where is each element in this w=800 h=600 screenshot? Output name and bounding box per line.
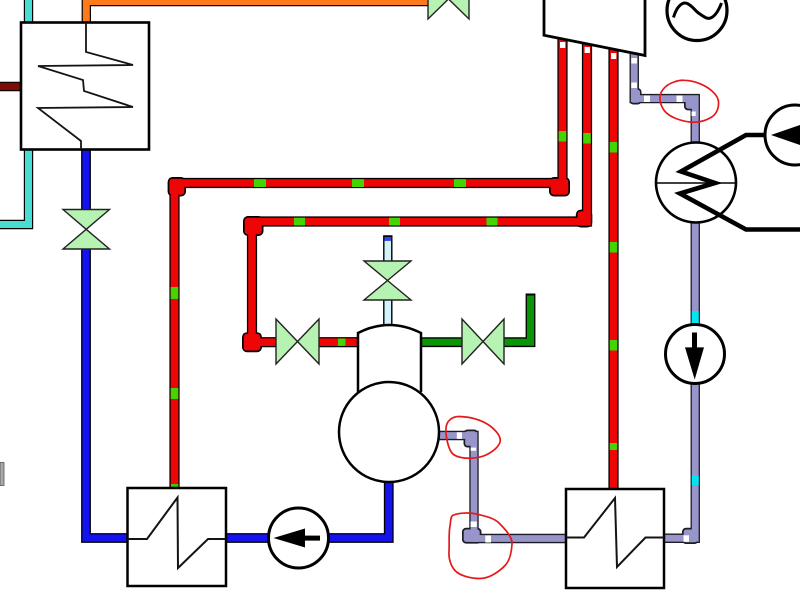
condenser mid line bbox=[656, 182, 736, 184]
cooling water line through condenser bbox=[680, 135, 800, 230]
valve above vessel (pale line) bbox=[364, 261, 411, 300]
pipe: red steam line B (turbine to vessel) bbox=[242, 44, 592, 352]
flow markers: green dashes on red lines bbox=[171, 131, 618, 450]
flow indicator circle with down arrow bbox=[666, 325, 725, 384]
vessel: boiler drum cylinder bbox=[358, 325, 421, 392]
pipe: red steam line C (turbine to right HX) bbox=[608, 49, 618, 490]
generator G bbox=[667, 0, 727, 41]
marker: royal blue dash on pale pipe bbox=[384, 237, 391, 241]
valve on blue feedwater line bbox=[63, 210, 110, 250]
heat exchanger: bottom-right box bbox=[566, 489, 664, 588]
gray tab at left edge bbox=[0, 463, 4, 486]
pipe: orange flue gas line top bbox=[86, 0, 428, 23]
pipe: maroon stub into economizer bbox=[0, 82, 22, 92]
turbine bbox=[544, 0, 645, 56]
pipe: red steam line A (turbine to left HX) bbox=[168, 39, 570, 489]
pump: cooling water pump top-right bbox=[765, 105, 800, 165]
heat exchanger: economizer box top-left bbox=[21, 23, 149, 150]
flow markers: white dashes on red lines near turbine bbox=[560, 42, 616, 59]
annotation: red circle around bottom elbow bbox=[449, 513, 512, 578]
pump: feedwater pump bottom-left bbox=[269, 508, 329, 568]
flow markers: white dashes on lavender line bbox=[457, 58, 696, 543]
flow markers: cyan dashes on lavender line bbox=[692, 311, 699, 485]
annotation: red circle around turbine outlet elbow bbox=[660, 80, 719, 122]
pipe: blue feedwater line (economizer to pump to vessel) bbox=[86, 149, 389, 538]
vessel: boiler drum circle bbox=[339, 382, 439, 482]
annotation: red circle around vessel outlet elbow bbox=[446, 417, 500, 459]
pipe: cyan cooling line left bbox=[0, 0, 29, 225]
pipe: lavender line vessel to right HX bbox=[439, 430, 566, 544]
junction: olive tip where red pipe A meets left HX bbox=[171, 484, 178, 489]
valve on green line bbox=[462, 319, 504, 364]
valve on orange line top bbox=[428, 0, 469, 19]
pipe: lavender line condenser to flow indicator bbox=[691, 222, 700, 325]
condenser (circle heat exchanger) bbox=[656, 143, 736, 223]
pipe: lavender line flow indicator to right HX bbox=[664, 383, 699, 544]
pipe: dark green stub from vessel bbox=[421, 294, 531, 343]
pipe: lavender condensate line from turbine to condenser bbox=[630, 54, 699, 143]
pipe: pale blue stub above vessel bbox=[384, 235, 391, 326]
valve on red line into vessel bbox=[276, 319, 319, 364]
heat exchanger: bottom-left box bbox=[128, 488, 227, 586]
